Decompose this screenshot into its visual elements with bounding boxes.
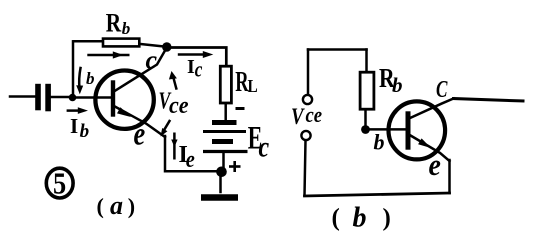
- current arrow under Rb: [87, 51, 129, 58]
- ground symbol: [201, 194, 238, 201]
- label C (circuit b): [436, 75, 448, 103]
- svg-text:b: b: [392, 73, 403, 97]
- capacitor C1 (input coupling): [35, 84, 51, 112]
- resistor Rb (circuit b): [360, 72, 374, 109]
- node: base node junction dot: [69, 94, 77, 102]
- terminal circle lower (Vce): [301, 131, 310, 140]
- svg-text:5: 5: [53, 166, 66, 200]
- small-signal arrow ib (down) with label b: [76, 68, 94, 94]
- label plus: [229, 161, 241, 172]
- svg-text:a: a: [110, 191, 123, 220]
- transistor Q2 emitter lead with arrowhead: [408, 134, 450, 161]
- svg-text:b: b: [353, 203, 367, 234]
- wire: node down to ground: [219, 174, 222, 192]
- resistor Rb (circuit a): [103, 39, 139, 47]
- wire: input lead left of capacitor: [10, 95, 35, 98]
- label Ic: [187, 56, 203, 82]
- label RL: [235, 67, 258, 98]
- svg-text:e: e: [186, 145, 195, 172]
- svg-text:C: C: [436, 75, 448, 103]
- label Rb (circuit a): [106, 10, 131, 38]
- wire: top horizontal to Rb: [73, 40, 103, 43]
- voltage arrow Vce upper (to collector): [169, 71, 177, 89]
- battery Ec plates: [203, 123, 248, 152]
- wire: bottom rail (circuit b): [305, 193, 450, 196]
- transistor Q1 circle (circuit a): [95, 71, 153, 129]
- svg-text:I: I: [70, 114, 78, 138]
- wire: down into Rb (circuit b): [365, 50, 368, 71]
- svg-text:L: L: [248, 76, 258, 96]
- svg-text:b: b: [122, 19, 131, 38]
- wire: emitter down and right to battery bottom node: [165, 136, 218, 171]
- label Vce (circuit b): [291, 103, 322, 130]
- current arrow Ic: [178, 51, 214, 58]
- wire: RL bottom lead to battery: [224, 105, 227, 120]
- svg-text:e: e: [134, 116, 146, 152]
- resistor RL (circuit a): [220, 66, 231, 103]
- current arrow Ie (down): [171, 133, 177, 160]
- svg-text:(: (: [332, 205, 340, 232]
- wire: top rail from node to RL corner: [167, 48, 227, 67]
- svg-text:b: b: [374, 130, 385, 155]
- wire: emitter down right side (circuit b): [448, 160, 451, 193]
- wire: battery bottom to ground node: [222, 154, 225, 169]
- svg-text:): ): [383, 205, 391, 232]
- voltage arrow Vce lower (to emitter): [161, 121, 170, 137]
- figure number 5 circled: [46, 166, 73, 200]
- label e (circuit b): [429, 149, 441, 183]
- wire: lower terminal down to bottom rail: [305, 141, 306, 196]
- wire: top horizontal (circuit b): [308, 48, 367, 51]
- label (a): [97, 191, 136, 220]
- svg-text:): ): [128, 194, 135, 219]
- label Ib: [70, 114, 89, 142]
- wire: Rb bottom lead to base node: [364, 111, 367, 126]
- current arrow Ib (right) under base lead: [67, 107, 88, 114]
- label Ec: [248, 120, 269, 163]
- node: base node dot (circuit b): [361, 125, 370, 134]
- transistor Q2 collector lead: [409, 99, 454, 119]
- terminal circle upper (Vce): [303, 95, 312, 104]
- svg-text:V: V: [291, 103, 305, 130]
- wire: capacitor to base node: [51, 96, 71, 99]
- wire: Rb right lead to top node: [141, 44, 165, 47]
- label (b): [332, 203, 391, 234]
- wire: base lead (circuit b): [368, 128, 405, 131]
- svg-text:c: c: [195, 57, 203, 82]
- node: collector top junction dot: [162, 42, 171, 51]
- wire: top-left vertical (circuit b): [307, 50, 310, 95]
- label Rb (circuit b): [379, 64, 403, 97]
- label Ie: [179, 142, 195, 172]
- node: battery bottom junction dot: [216, 167, 227, 178]
- transistor Q1 base bar: [111, 83, 115, 115]
- svg-text:(: (: [97, 194, 104, 219]
- wire: base node up left vertical: [72, 41, 75, 95]
- svg-text:ce: ce: [169, 91, 189, 118]
- svg-text:c: c: [146, 46, 158, 75]
- transistor Q1 emitter lead with arrowhead: [113, 106, 165, 138]
- svg-text:R: R: [106, 10, 122, 38]
- svg-text:I: I: [187, 56, 195, 78]
- svg-text:b: b: [80, 121, 90, 142]
- transistor Q2 circle (circuit b): [389, 101, 446, 159]
- label e (emitter, circuit a): [134, 116, 146, 152]
- wire: base lead from node to base bar: [74, 96, 111, 99]
- transistor Q1 collector lead to top node: [113, 48, 167, 92]
- label minus (battery top): [236, 107, 245, 110]
- label Vce (circuit a): [159, 86, 189, 118]
- svg-text:c: c: [259, 130, 270, 163]
- wire: collector long horizontal (circuit b): [454, 99, 524, 102]
- svg-text:ce: ce: [306, 104, 323, 128]
- svg-text:e: e: [429, 149, 441, 183]
- svg-text:b: b: [86, 69, 95, 88]
- transistor Q2 base bar: [406, 114, 411, 147]
